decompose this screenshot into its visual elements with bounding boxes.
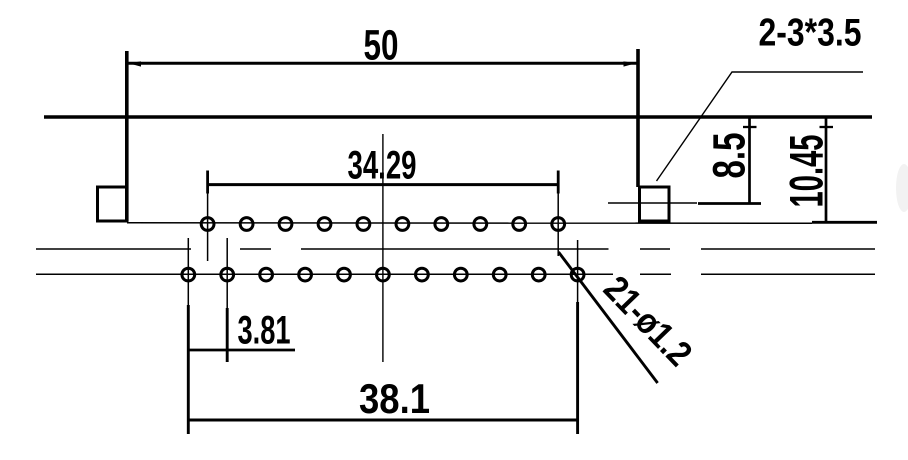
mounting slot left	[98, 187, 128, 221]
bottom hole row (11 holes)	[182, 268, 584, 281]
tick bar 10.45 bottom	[812, 221, 877, 224]
svg-text:3.81: 3.81	[238, 309, 291, 353]
dimension line 50	[128, 61, 637, 66]
extension through top hole 10	[557, 194, 559, 257]
extension line right (dim 50)	[636, 49, 640, 187]
extension line left (dim 50)	[125, 51, 129, 221]
extension through bottom hole 2	[226, 238, 228, 312]
vertical centerline	[382, 134, 384, 362]
extension bar 38.1 left	[187, 305, 190, 434]
top hole row (10 holes)	[201, 218, 564, 231]
svg-text:50: 50	[364, 22, 399, 70]
leader 2-3*3.5	[657, 72, 864, 181]
extension bar 3.81 right	[226, 308, 229, 362]
hidden edge line upper	[36, 248, 875, 250]
panel edge thick line	[44, 115, 872, 118]
extension bar 38.1 right	[576, 302, 579, 434]
svg-text:2-3*3.5: 2-3*3.5	[759, 12, 862, 55]
dimension line 3.81	[187, 349, 295, 352]
dimension line 38.1	[187, 419, 579, 422]
top row centerline	[127, 222, 812, 225]
slot centerline right	[608, 202, 697, 204]
svg-text:8.5: 8.5	[704, 133, 755, 179]
edge shadow artifact	[896, 164, 908, 212]
dimension line 10.45	[820, 118, 834, 222]
svg-text:34.29: 34.29	[348, 144, 417, 188]
dimension line 8.5	[743, 118, 757, 204]
mounting slot right	[640, 187, 670, 221]
dimension line 34.29	[208, 171, 559, 194]
bottom row centerline	[36, 273, 875, 275]
extension through bottom hole 1	[187, 238, 189, 310]
svg-text:10.45: 10.45	[780, 135, 833, 208]
leader 21-d1.2	[559, 252, 658, 383]
extension through bottom hole 11	[577, 240, 579, 305]
extension through top hole 1	[207, 194, 209, 262]
tick bar 8.5 bottom	[698, 202, 761, 205]
svg-text:38.1: 38.1	[359, 375, 430, 422]
